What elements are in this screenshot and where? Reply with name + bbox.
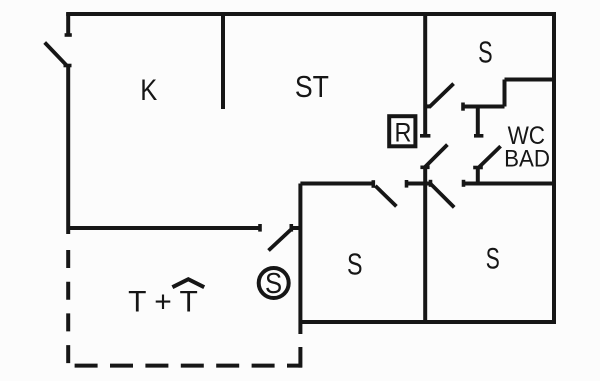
svg-text:K: K — [140, 73, 157, 106]
svg-text:S: S — [478, 34, 492, 69]
svg-text:S: S — [486, 243, 500, 275]
svg-text:ST: ST — [295, 70, 329, 104]
svg-text:S: S — [265, 267, 282, 300]
svg-text:R: R — [395, 118, 412, 148]
svg-text:S: S — [347, 246, 363, 281]
svg-text:BAD: BAD — [504, 145, 550, 172]
svg-text:T + T: T + T — [128, 286, 198, 319]
